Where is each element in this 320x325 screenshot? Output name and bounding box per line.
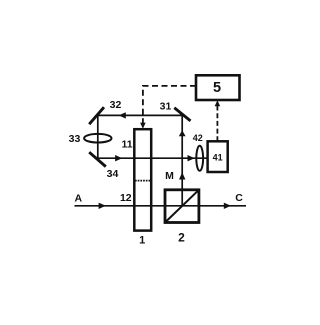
svg-text:12: 12 <box>120 192 132 204</box>
cell 1 rectangle <box>134 129 151 230</box>
svg-text:2: 2 <box>178 231 185 245</box>
dashed line from box 41 to box 5 <box>216 106 218 142</box>
dotted divider inside cell 1 <box>135 180 151 182</box>
wire left vertical x=98 <box>97 115 99 158</box>
arrow on beam C <box>224 203 231 209</box>
svg-text:1: 1 <box>139 235 145 247</box>
arrow on beam A <box>99 203 106 209</box>
cube diagonal <box>165 190 199 223</box>
arrow top beam pointing left <box>119 112 126 118</box>
beam splitter cube 2 <box>165 190 199 223</box>
arrow up into box 5 <box>215 100 221 106</box>
wire M vertical x=182 <box>181 115 183 205</box>
svg-text:34: 34 <box>107 168 119 180</box>
svg-text:5: 5 <box>213 80 221 96</box>
svg-text:31: 31 <box>160 100 172 112</box>
svg-text:11: 11 <box>121 139 132 151</box>
svg-text:M: M <box>165 170 174 182</box>
mirror 32 <box>89 107 104 124</box>
svg-text:C: C <box>235 192 243 204</box>
arrow M line upper up <box>179 130 186 136</box>
wire middle beam y=158 <box>98 157 208 159</box>
svg-text:32: 32 <box>110 99 122 111</box>
box 41 <box>208 141 228 172</box>
svg-text:41: 41 <box>213 153 223 163</box>
arrow middle beam right <box>188 155 195 161</box>
arrow middle beam left <box>115 155 122 161</box>
box 5 <box>196 75 240 100</box>
svg-text:A: A <box>75 193 83 205</box>
dashed control line from box 5 to cell 11 <box>143 86 196 124</box>
svg-text:42: 42 <box>193 133 203 143</box>
lens 33 <box>84 134 111 143</box>
wire top beam y=115 <box>98 114 182 116</box>
arrow M line lower up <box>179 172 185 179</box>
mirror 31 <box>174 108 190 121</box>
wire beam A horizontal y=206 <box>75 205 247 207</box>
mirror 34 <box>89 152 106 166</box>
lens 42 <box>196 146 203 171</box>
arrow down at end of dashed line <box>140 123 146 129</box>
svg-text:33: 33 <box>69 133 81 145</box>
